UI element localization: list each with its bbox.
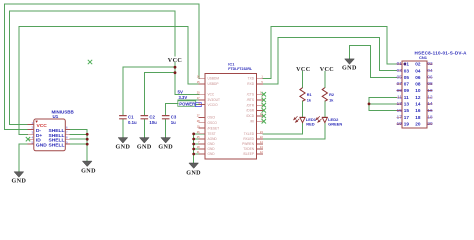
svg-text:08: 08	[427, 81, 433, 86]
svg-text:05: 05	[404, 75, 410, 80]
no-connect X floating	[88, 60, 92, 64]
svg-text:GND: GND	[36, 143, 47, 149]
svg-text:02: 02	[415, 62, 421, 67]
wire TXD net from IC to header pin 01	[263, 27, 397, 79]
wire GND branch to header pins 07 11 13 15	[369, 97, 397, 110]
no-connect X marks on IC right pins	[262, 92, 266, 123]
svg-text:13: 13	[404, 102, 410, 107]
svg-text:C3: C3	[171, 115, 177, 120]
svg-text:09: 09	[404, 88, 410, 93]
svg-text:SHELL: SHELL	[49, 143, 65, 149]
svg-text:C2: C2	[149, 115, 155, 120]
svg-text:07: 07	[404, 82, 410, 87]
svg-text:VCCIO: VCCIO	[208, 103, 219, 107]
junction SHELL bus row 2	[86, 133, 89, 136]
svg-text:TEST: TEST	[208, 132, 216, 136]
svg-text:10: 10	[415, 88, 421, 93]
capacitor C1	[119, 115, 137, 125]
wire VCC stem down to 5V wire	[175, 63, 199, 95]
junction header pin 01 marker	[404, 63, 407, 66]
svg-text:/RTS: /RTS	[247, 98, 254, 102]
svg-text:07: 07	[397, 81, 403, 86]
IC right pin stubs	[257, 78, 264, 154]
svg-text:12: 12	[415, 95, 421, 100]
svg-text:10: 10	[427, 88, 433, 93]
svg-text:GND: GND	[116, 145, 131, 151]
svg-text:GND: GND	[208, 142, 216, 146]
wire C2 bottom to ground	[143, 119, 145, 137]
svg-text:GREEN: GREEN	[328, 121, 342, 126]
svg-text:16: 16	[415, 108, 421, 113]
svg-text:RXLED: RXLED	[243, 137, 254, 141]
svg-text:/SLEEP: /SLEEP	[243, 152, 254, 156]
svg-text:OSCO: OSCO	[208, 121, 218, 125]
ground symbol below C3	[158, 138, 173, 151]
capacitor C3	[162, 115, 177, 125]
junction VCC rail / C2	[174, 71, 177, 74]
connector U1 MINIUSBB	[28, 109, 75, 150]
svg-text:14: 14	[415, 102, 421, 107]
svg-text:VCC: VCC	[208, 93, 215, 97]
svg-text:03: 03	[404, 68, 410, 73]
ground symbol below C1	[116, 138, 131, 151]
junction IC ground bus GND	[192, 143, 195, 146]
wire TXLED net from IC to LED1	[263, 123, 303, 134]
wire POWER net to IC VCCIO	[196, 104, 199, 106]
wire C3 top to POWER label	[166, 103, 178, 115]
svg-text:5V: 5V	[178, 89, 183, 94]
svg-text:03: 03	[397, 68, 403, 73]
svg-text:20: 20	[415, 121, 421, 126]
svg-text:15: 15	[397, 108, 403, 113]
svg-text:1u: 1u	[171, 120, 176, 125]
svg-text:12: 12	[427, 94, 433, 99]
wire VCC to R1	[302, 72, 304, 88]
svg-text:06: 06	[415, 75, 421, 80]
svg-text:VCC: VCC	[320, 67, 334, 73]
svg-text:GND: GND	[208, 152, 216, 156]
wire RXD net from IC to header pin 03	[263, 38, 397, 84]
wire C3 bottom to ground	[165, 119, 167, 137]
svg-text:POWER: POWER	[179, 101, 195, 106]
svg-text:14: 14	[427, 101, 433, 106]
net label POWER in green box	[178, 101, 202, 107]
svg-text:02: 02	[427, 61, 433, 66]
svg-text:GND: GND	[158, 145, 173, 151]
svg-text:09: 09	[397, 88, 403, 93]
svg-text:/RESET: /RESET	[208, 126, 220, 130]
junction VCC rail / C1	[174, 66, 177, 69]
svg-text:GND: GND	[342, 66, 357, 72]
svg-text:05: 05	[397, 75, 403, 80]
IC left pin stubs	[198, 78, 205, 154]
svg-text:19: 19	[404, 121, 410, 126]
svg-text:USBDM: USBDM	[208, 77, 220, 81]
junction SHELL bus row 4	[86, 143, 89, 146]
svg-text:01: 01	[397, 61, 403, 66]
svg-text:/DCD: /DCD	[246, 114, 254, 118]
LED LED2 GREEN	[316, 116, 342, 126]
no-connect X on USB ID pin	[26, 137, 30, 141]
svg-text:10u: 10u	[149, 120, 157, 125]
svg-text:OSCI: OSCI	[208, 116, 216, 120]
svg-text:/CTS: /CTS	[247, 93, 254, 97]
svg-text:11: 11	[404, 95, 409, 100]
wire GND net to header pin 05	[350, 45, 397, 77]
svg-text:VCC: VCC	[168, 58, 182, 64]
wire D+ net from USB D+ up over top to IC USBDP	[19, 27, 199, 135]
junction IC ground bus AGND	[192, 138, 195, 141]
svg-text:20: 20	[427, 121, 433, 126]
svg-text:18: 18	[415, 115, 421, 120]
wire RXLED net from IC to LED2	[263, 123, 325, 139]
svg-text:04: 04	[415, 68, 421, 73]
svg-text:GND: GND	[186, 170, 201, 176]
wire R2 to LED2	[324, 101, 326, 117]
svg-text:0.1u: 0.1u	[128, 120, 137, 125]
svg-text:U1: U1	[53, 114, 59, 119]
svg-text:USBDP: USBDP	[208, 82, 219, 86]
IC IC1 FTDI-FT232RL	[197, 61, 264, 159]
junction IC ground bus TEST	[192, 133, 195, 136]
junction IC ground bus GND	[192, 148, 195, 151]
svg-text:C1: C1	[128, 115, 134, 120]
ground symbol below C2	[137, 138, 152, 151]
svg-text:R1: R1	[307, 93, 312, 97]
svg-text:GND: GND	[137, 145, 152, 151]
svg-text:08: 08	[415, 82, 421, 87]
svg-text:11: 11	[397, 94, 402, 99]
LED LED1 RED	[294, 116, 317, 126]
wire SHELL pins bus	[70, 129, 87, 161]
svg-text:GND: GND	[208, 147, 216, 151]
svg-text:18: 18	[427, 114, 433, 119]
junction header ground bundle	[368, 103, 371, 106]
svg-text:06: 06	[427, 75, 433, 80]
wire 3.3V net to IC 3V3OUT	[178, 99, 199, 101]
capacitor C2	[141, 115, 158, 125]
wire C1 top to VCC rail	[123, 67, 175, 115]
svg-text:01: 01	[404, 62, 410, 67]
svg-text:17: 17	[404, 115, 410, 120]
resistor R2	[322, 88, 334, 103]
wire VCC to R2	[324, 72, 326, 88]
svg-text:04: 04	[427, 68, 433, 73]
wire C1 bottom to ground	[122, 119, 124, 137]
svg-text:3V3OUT: 3V3OUT	[208, 98, 220, 102]
svg-text:AGND: AGND	[208, 137, 218, 141]
junction SHELL bus row 3	[86, 138, 89, 141]
svg-text:VCC: VCC	[296, 67, 310, 73]
svg-text:3.3V: 3.3V	[179, 95, 188, 100]
svg-text:TXDEN: TXDEN	[243, 147, 255, 151]
wire C2 top to VCC rail	[144, 73, 175, 116]
svg-text:17: 17	[397, 114, 403, 119]
svg-text:TXD: TXD	[248, 77, 255, 81]
svg-text:GND: GND	[12, 178, 27, 184]
junction IC ground bus GND	[192, 153, 195, 156]
svg-text:13: 13	[397, 101, 403, 106]
ground symbol below SHELL bus	[81, 161, 96, 174]
wire VCC net from USB VCC up over top down to VCC symbol	[10, 11, 175, 125]
svg-text:RXD: RXD	[247, 82, 254, 86]
svg-text:RED: RED	[306, 121, 315, 126]
ground symbol below IC	[186, 163, 201, 176]
ground symbol right of VCC symbols	[342, 59, 357, 72]
svg-text:FTDI-FT232RL: FTDI-FT232RL	[228, 67, 253, 71]
wire R1 to LED1	[302, 101, 304, 117]
svg-text:IC1: IC1	[228, 61, 235, 66]
svg-text:/DSR: /DSR	[246, 109, 254, 113]
svg-text:TXLED: TXLED	[244, 132, 255, 136]
connector CN1 HSEC8-110-01-S-DV-A	[397, 51, 468, 128]
ground symbol below USB connector	[12, 172, 27, 185]
svg-text:PWREN: PWREN	[242, 142, 255, 146]
wire USB GND pin to ground	[19, 144, 28, 172]
svg-text:16: 16	[427, 108, 433, 113]
svg-text:GND: GND	[81, 168, 96, 174]
svg-text:/RI: /RI	[250, 120, 254, 124]
svg-text:/DTR: /DTR	[247, 103, 255, 107]
resistor R1	[300, 88, 312, 103]
wire D- net from USB D- up over top to IC USBDM	[5, 4, 200, 129]
svg-text:15: 15	[404, 108, 410, 113]
svg-text:CN1: CN1	[419, 55, 428, 60]
svg-text:19: 19	[397, 121, 403, 126]
wire IC ground bus	[194, 134, 205, 163]
svg-text:R2: R2	[329, 93, 334, 97]
